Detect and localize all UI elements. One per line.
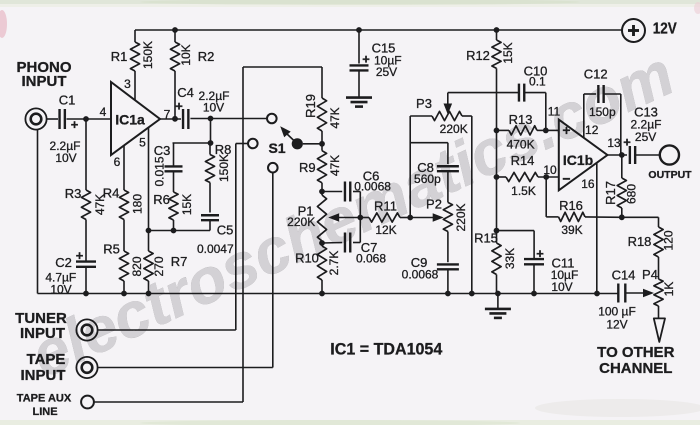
svg-text:0.1: 0.1 — [529, 75, 546, 89]
potentiometer P1 — [317, 192, 326, 244]
capacitor C15 — [350, 30, 369, 98]
svg-text:CHANNEL: CHANNEL — [599, 360, 672, 377]
svg-text:0.068: 0.068 — [356, 252, 386, 266]
P4 wiper arrow — [626, 289, 654, 298]
svg-text:C2: C2 — [55, 255, 72, 270]
label P2 — [426, 197, 442, 212]
wire pin 13 output — [607, 154, 627, 156]
value 0.015 — [153, 156, 167, 186]
svg-text:0.0068: 0.0068 — [354, 180, 391, 194]
pin 12 — [585, 123, 599, 137]
junction bias branch — [494, 228, 500, 234]
capacitor C8 — [437, 166, 459, 202]
value 0.0047 — [197, 242, 234, 256]
label S1 — [268, 140, 285, 156]
wire pin 12 feedback — [584, 94, 596, 138]
label C1 — [59, 93, 79, 133]
svg-text:220K: 220K — [440, 122, 468, 136]
svg-text:15K: 15K — [180, 194, 194, 215]
svg-text:12: 12 — [585, 123, 599, 137]
junction P1 bottom — [319, 240, 325, 246]
junction R13 ends — [494, 127, 549, 133]
label R16 — [559, 198, 583, 213]
svg-text:+: + — [536, 246, 544, 261]
value 470K — [507, 138, 535, 152]
resistor R12 — [492, 30, 501, 243]
wire P3 wiper to C10 — [448, 92, 519, 94]
wire phono ground down-left — [37, 130, 39, 294]
svg-text:R19: R19 — [303, 94, 318, 118]
value 220K — [287, 215, 315, 229]
label R19 — [303, 94, 318, 118]
value 270 — [152, 256, 166, 276]
svg-text:47K: 47K — [328, 107, 342, 128]
value 10uF 10V — [551, 268, 579, 294]
op-amp IC1a — [111, 82, 160, 155]
pin 4 — [100, 105, 107, 119]
capacitor C4 — [183, 109, 188, 129]
svg-text:10V: 10V — [203, 101, 224, 115]
P3 wiper arrow — [444, 93, 453, 115]
wire node X up to P3 — [410, 116, 432, 218]
label OUTPUT — [648, 169, 692, 181]
svg-text:150p: 150p — [589, 105, 616, 119]
svg-text:1K: 1K — [662, 282, 676, 297]
wire tuner input run — [98, 144, 249, 331]
value 1.5K — [511, 184, 536, 198]
junction R14 left — [494, 174, 500, 180]
svg-text:R18: R18 — [628, 234, 652, 249]
label C15 — [362, 41, 395, 67]
svg-text:5: 5 — [139, 136, 146, 150]
wire tape input run — [98, 172, 273, 367]
pin 7 — [164, 108, 171, 122]
label R18 — [628, 234, 652, 249]
resistor R7 — [144, 251, 153, 294]
svg-text:INPUT: INPUT — [22, 73, 67, 90]
junction dots mid rail right — [319, 291, 600, 297]
svg-text:R9: R9 — [299, 160, 316, 175]
svg-text:12V: 12V — [606, 318, 627, 332]
value 560p — [414, 172, 441, 186]
svg-text:560p: 560p — [414, 172, 441, 186]
capacitor C11 — [524, 259, 544, 293]
resistor R17 — [617, 155, 626, 217]
switch S1 contact left (tuner) — [248, 139, 258, 149]
resistor R19 — [317, 67, 326, 144]
label R15 — [474, 231, 498, 246]
svg-text:270: 270 — [152, 256, 166, 276]
value 120 — [662, 230, 676, 250]
svg-text:P4: P4 — [642, 267, 658, 282]
svg-text:3: 3 — [124, 77, 131, 91]
svg-text:25V: 25V — [635, 130, 656, 144]
label TAPE AUX LINE — [17, 392, 72, 418]
value 220K — [454, 203, 468, 231]
resistor R10 — [317, 243, 326, 294]
power rail +12V (top) — [135, 29, 622, 31]
label C2 — [55, 248, 84, 270]
value 150K — [217, 154, 231, 182]
resistor R9 — [317, 144, 326, 192]
svg-text:LINE: LINE — [32, 406, 57, 418]
wire pin 7 to C4 — [160, 118, 181, 120]
label TO OTHER CHANNEL — [597, 344, 674, 377]
label 12V — [653, 21, 677, 38]
switch S1 contact low (tape) — [268, 163, 278, 173]
svg-text:16: 16 — [581, 177, 595, 191]
resistor R11 — [360, 213, 410, 222]
svg-text:220K: 220K — [454, 203, 468, 231]
label TAPE INPUT — [21, 351, 66, 384]
junction dots on ground rail left — [83, 291, 151, 297]
svg-text:C3: C3 — [154, 143, 171, 158]
capacitor C14 — [618, 284, 625, 303]
svg-text:R2: R2 — [198, 49, 215, 64]
svg-text:INPUT: INPUT — [21, 367, 66, 384]
value 33K — [503, 248, 517, 269]
label C5 — [217, 223, 234, 238]
junction R2-output — [172, 116, 178, 122]
label R9 — [299, 160, 316, 175]
value 10uF 25V — [374, 54, 402, 80]
svg-text:INPUT: INPUT — [20, 325, 65, 342]
svg-text:+: + — [175, 99, 183, 114]
svg-text:+: + — [71, 117, 79, 132]
switch S1 wiper — [280, 126, 303, 149]
capacitor C7 — [322, 218, 360, 253]
svg-text:R6: R6 — [153, 192, 170, 207]
svg-text:+: + — [623, 135, 631, 150]
junction tone node X — [407, 215, 413, 221]
resistor R8 — [205, 143, 214, 213]
junction dots on 230 line — [146, 228, 177, 234]
label R7 — [171, 254, 188, 269]
wire pin 16 down to rail — [596, 163, 598, 293]
label R8 — [215, 142, 232, 157]
svg-text:0.0047: 0.0047 — [197, 242, 234, 256]
value 0.0068 — [402, 268, 439, 282]
value 4.7uF 10V — [45, 271, 76, 297]
svg-text:P2: P2 — [426, 197, 442, 212]
ground (bias) — [485, 294, 511, 318]
junction dots on top rail — [172, 27, 499, 33]
label TUNER INPUT — [15, 310, 67, 342]
pin 10 — [543, 163, 557, 177]
wire phono to pin 4 — [47, 118, 111, 120]
svg-text:TAPE AUX: TAPE AUX — [17, 392, 72, 404]
label R3 — [65, 186, 82, 201]
svg-text:R1: R1 — [111, 49, 128, 64]
svg-text:120: 120 — [662, 230, 676, 250]
wire pin 6 down — [123, 146, 125, 190]
capacitor C12 — [598, 85, 620, 155]
label C11 — [536, 246, 574, 271]
label IC1 = TDA1054 — [330, 339, 443, 358]
value 2.7K — [327, 251, 341, 276]
svg-text:R12: R12 — [466, 48, 490, 63]
wire tape aux run — [94, 67, 322, 402]
value 220K — [440, 122, 468, 136]
svg-text:R17: R17 — [603, 181, 618, 205]
svg-text:11: 11 — [548, 105, 561, 119]
resistor R4 — [119, 190, 128, 251]
pin 13 — [607, 136, 621, 150]
label C12 — [584, 67, 608, 82]
capacitor C9 — [437, 232, 459, 294]
capacitor C13 — [630, 146, 660, 164]
label P3 — [416, 96, 432, 111]
svg-text:10K: 10K — [179, 44, 193, 65]
label C7 — [361, 240, 378, 255]
svg-text:150K: 150K — [217, 154, 231, 182]
value 100uF 12V — [598, 305, 636, 332]
value 680 — [625, 184, 639, 204]
capacitor C6 — [322, 182, 360, 218]
label C10 — [524, 64, 548, 79]
tuner input connector — [76, 319, 97, 340]
label R1 — [111, 49, 128, 64]
svg-text:−: − — [562, 170, 570, 186]
value 47K — [93, 194, 107, 215]
svg-text:0.015: 0.015 — [153, 156, 167, 186]
svg-text:TO OTHER: TO OTHER — [597, 344, 674, 361]
label C3 — [154, 143, 171, 158]
svg-text:R11: R11 — [374, 199, 397, 214]
svg-text:47K: 47K — [328, 155, 342, 176]
wire C3 branch top — [173, 142, 211, 144]
value 0.1 — [529, 75, 546, 89]
svg-text:33K: 33K — [503, 248, 517, 269]
label C14 — [612, 268, 636, 283]
resistor R3 — [81, 119, 90, 261]
svg-text:680: 680 — [625, 184, 639, 204]
svg-text:R7: R7 — [171, 254, 188, 269]
svg-text:6: 6 — [114, 155, 121, 169]
node C4 output — [208, 116, 214, 122]
svg-text:IC1b: IC1b — [563, 152, 593, 168]
label R10 — [295, 251, 319, 266]
label P4 — [642, 267, 658, 282]
value 10K — [179, 44, 193, 65]
value 820 — [130, 256, 144, 276]
svg-text:C14: C14 — [612, 268, 636, 283]
resistor R5 — [119, 251, 128, 294]
label R11 — [374, 199, 397, 214]
label R4 — [103, 186, 120, 201]
value 150p — [589, 105, 616, 119]
capacitor C5 — [201, 215, 219, 230]
svg-text:12V: 12V — [653, 21, 677, 38]
value 39K — [561, 223, 582, 237]
svg-text:TAPE: TAPE — [27, 351, 66, 368]
label R12 — [466, 48, 490, 63]
svg-text:OUTPUT: OUTPUT — [648, 169, 692, 181]
switch S1 contact up (phono) — [267, 114, 277, 124]
value 2.2uF 25V — [631, 118, 662, 144]
wire pin 11 — [546, 129, 559, 131]
wire bias branch to C11 — [497, 231, 535, 258]
value 2.2uF 10V — [50, 139, 81, 165]
svg-text:10V: 10V — [50, 283, 71, 297]
value 180 — [131, 194, 145, 214]
svg-text:S1: S1 — [268, 140, 285, 156]
P1 wiper arrow — [328, 213, 360, 222]
capacitor C1 — [60, 109, 65, 129]
op-amp IC1b — [559, 120, 608, 191]
svg-text:R3: R3 — [65, 186, 82, 201]
junction wiper node — [319, 141, 325, 147]
svg-text:P3: P3 — [416, 96, 432, 111]
svg-text:12K: 12K — [375, 223, 396, 237]
svg-text:R14: R14 — [511, 153, 535, 168]
arrow to other channel — [654, 318, 665, 342]
capacitor C3 — [165, 143, 183, 192]
svg-text:C5: C5 — [217, 223, 234, 238]
junction R8 top — [208, 140, 214, 146]
value 47K — [328, 107, 342, 128]
junction C6/C7 node — [357, 215, 363, 221]
svg-text:+: + — [362, 52, 370, 67]
phono input connector — [25, 108, 46, 129]
ground rail (mid, bias line) — [38, 293, 619, 295]
svg-text:150K: 150K — [141, 41, 155, 69]
svg-text:15K: 15K — [501, 42, 515, 63]
svg-text:IC1 = TDA1054: IC1 = TDA1054 — [330, 339, 443, 358]
value 150K — [141, 41, 155, 69]
svg-text:470K: 470K — [507, 138, 535, 152]
resistor R1 — [130, 30, 139, 101]
resistor R15 — [492, 243, 501, 294]
svg-text:C12: C12 — [584, 67, 608, 82]
value 0.0068 — [354, 180, 391, 194]
label PHONO INPUT — [16, 59, 71, 90]
svg-text:39K: 39K — [561, 223, 582, 237]
label R14 — [511, 153, 535, 168]
svg-text:C1: C1 — [59, 93, 76, 108]
label C9 — [411, 255, 428, 270]
wire pin5 node line — [149, 230, 211, 232]
resistor R16 — [543, 174, 622, 221]
potentiometer P2 — [443, 202, 452, 231]
svg-text:R15: R15 — [474, 231, 498, 246]
value 15K — [501, 42, 515, 63]
label C8 — [417, 160, 434, 175]
resistor R13 — [497, 126, 546, 135]
ground (C15) — [346, 98, 372, 107]
svg-text:820: 820 — [130, 256, 144, 276]
svg-text:13: 13 — [607, 136, 621, 150]
junction output node — [619, 152, 625, 158]
wire node down to R8 — [210, 119, 212, 144]
value 0.068 — [356, 252, 386, 266]
wire S1 wiper to R19/R9 — [303, 143, 322, 145]
wire pin 5 down — [148, 128, 150, 252]
label P1 — [298, 204, 314, 219]
svg-text:0.0068: 0.0068 — [402, 268, 439, 282]
wire C8 branch — [410, 143, 448, 164]
value 1K — [662, 282, 676, 297]
svg-text:R10: R10 — [295, 251, 319, 266]
resistor R2 — [170, 30, 179, 119]
capacitor C2 — [76, 262, 96, 294]
wire C4 to S1 contact — [190, 118, 267, 120]
svg-text:+: + — [562, 122, 570, 138]
svg-text:R5: R5 — [103, 242, 120, 257]
label R17 — [603, 181, 618, 205]
svg-text:R13: R13 — [509, 112, 533, 127]
label R5 — [103, 242, 120, 257]
potentiometer P4 — [654, 279, 663, 318]
svg-text:100 µF: 100 µF — [598, 305, 636, 319]
svg-text:IC1a: IC1a — [115, 111, 145, 127]
svg-text:220K: 220K — [287, 215, 315, 229]
value 47K — [328, 155, 342, 176]
junction R17 bottom — [619, 214, 625, 220]
resistor R14 — [497, 172, 559, 181]
svg-text:R4: R4 — [103, 186, 120, 201]
resistor R6 — [169, 192, 178, 231]
P2 wiper arrow — [410, 213, 444, 222]
svg-text:10V: 10V — [551, 280, 572, 294]
svg-text:25V: 25V — [376, 65, 397, 79]
pin 16 — [581, 177, 595, 191]
label C6 — [363, 169, 380, 184]
svg-text:R16: R16 — [559, 198, 583, 213]
label C4 — [175, 85, 194, 114]
value 12K — [375, 223, 396, 237]
capacitor C10 — [519, 84, 546, 131]
label R2 — [198, 49, 215, 64]
pin 3 — [124, 77, 131, 91]
label C13 — [623, 105, 658, 150]
resistor R18 — [622, 217, 663, 279]
svg-text:10V: 10V — [55, 151, 76, 165]
svg-text:180: 180 — [131, 194, 145, 214]
value 2.2uF 10V — [199, 89, 230, 115]
tape input connector — [76, 357, 97, 378]
junction R9 bottom — [319, 189, 325, 195]
value 15K — [180, 194, 194, 215]
12V supply symbol — [622, 19, 645, 42]
label R6 — [153, 192, 170, 207]
output connector — [660, 145, 679, 164]
tape aux connector — [81, 396, 94, 409]
label R13 — [509, 112, 533, 127]
pin 6 — [114, 155, 121, 169]
node R3 junction — [83, 116, 89, 122]
svg-text:+: + — [76, 248, 84, 263]
potentiometer P3 — [432, 111, 472, 293]
svg-text:2.7K: 2.7K — [327, 251, 341, 276]
svg-text:1.5K: 1.5K — [511, 184, 536, 198]
pin 5 — [139, 136, 146, 150]
svg-text:4: 4 — [100, 105, 107, 119]
pin 11 — [548, 105, 561, 119]
